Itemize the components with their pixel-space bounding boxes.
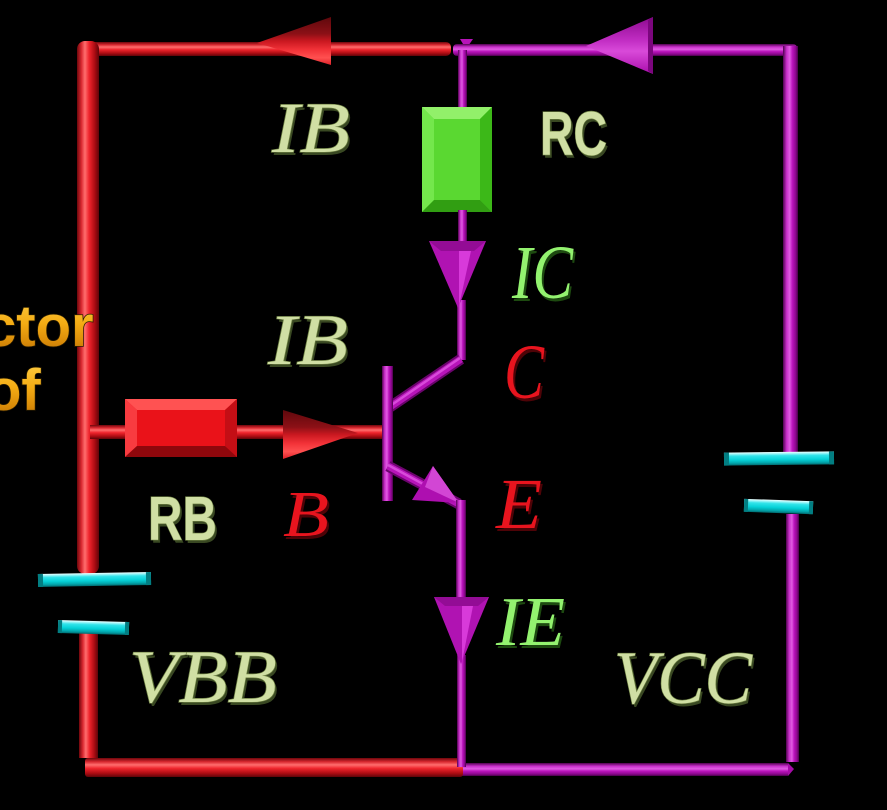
svg-text:IB: IB — [271, 88, 350, 168]
wire: purple below IE arrow to bottom wire — [457, 655, 466, 767]
svg-text:of: of — [0, 358, 41, 423]
label RB — [148, 485, 219, 557]
wire: purple stub from top wire to RC — [458, 50, 467, 110]
wire: emitter diagonal — [388, 465, 459, 504]
wire: top red horizontal — [78, 42, 451, 56]
wire: purple stub RC to IC arrow — [458, 210, 467, 244]
svg-text:B: B — [283, 478, 329, 551]
wire: top purple horizontal — [453, 44, 797, 56]
svg-text:ctor: ctor — [0, 294, 94, 359]
svg-text:RB: RB — [148, 485, 217, 554]
wire: red from left rail to RB — [90, 425, 132, 439]
arrow: collector current IC — [429, 241, 486, 308]
label VBB — [129, 636, 279, 722]
wire: right purple vertical lower segment — [786, 514, 799, 762]
wire: bottom red horizontal — [85, 758, 463, 777]
arrow: base current IB into base — [283, 410, 358, 459]
label IC — [511, 231, 576, 318]
wire: bottom purple horizontal — [461, 763, 794, 776]
joint: cone tip above RC junction — [460, 39, 473, 49]
wire: purple below IC arrow — [457, 300, 466, 360]
label IB (middle) — [267, 300, 350, 383]
label IE — [495, 584, 567, 664]
svg-text:IE: IE — [495, 584, 565, 661]
label C (collector) — [504, 328, 547, 418]
arrow: emitter arrow of transistor — [412, 466, 459, 503]
resistor RC body — [422, 107, 492, 212]
svg-text:C: C — [504, 328, 545, 415]
label B (base) — [283, 478, 331, 554]
wire: left red vertical upper segment — [77, 41, 99, 574]
wire: right purple vertical upper segment — [783, 46, 798, 452]
battery VBB top plate — [38, 572, 151, 587]
label IB (top) — [271, 88, 352, 171]
wire: collector diagonal into transistor — [390, 358, 461, 407]
svg-text:VBB: VBB — [129, 636, 277, 719]
resistor RB body — [125, 399, 237, 457]
battery VCC bottom plate — [744, 499, 813, 514]
wire: left red vertical lower segment — [79, 632, 98, 758]
svg-text:VCC: VCC — [614, 637, 753, 720]
arrow: current on top purple wire — [586, 17, 653, 74]
arrow: base current IB on top wire — [257, 17, 331, 65]
label VCC — [614, 637, 755, 723]
svg-text:IC: IC — [511, 231, 574, 315]
arrow: emitter current IE — [434, 597, 489, 664]
label E (emitter) — [495, 464, 544, 547]
transistor Q1 base bar — [382, 366, 393, 501]
battery VCC top plate — [724, 451, 834, 465]
svg-text:E: E — [495, 464, 542, 544]
label RC — [540, 100, 609, 172]
wire: red from RB to transistor base — [237, 425, 393, 439]
wire: emitter vertical — [456, 500, 466, 600]
battery VBB bottom plate — [58, 620, 129, 635]
svg-text:IB: IB — [267, 300, 348, 380]
svg-text:RC: RC — [540, 100, 607, 169]
